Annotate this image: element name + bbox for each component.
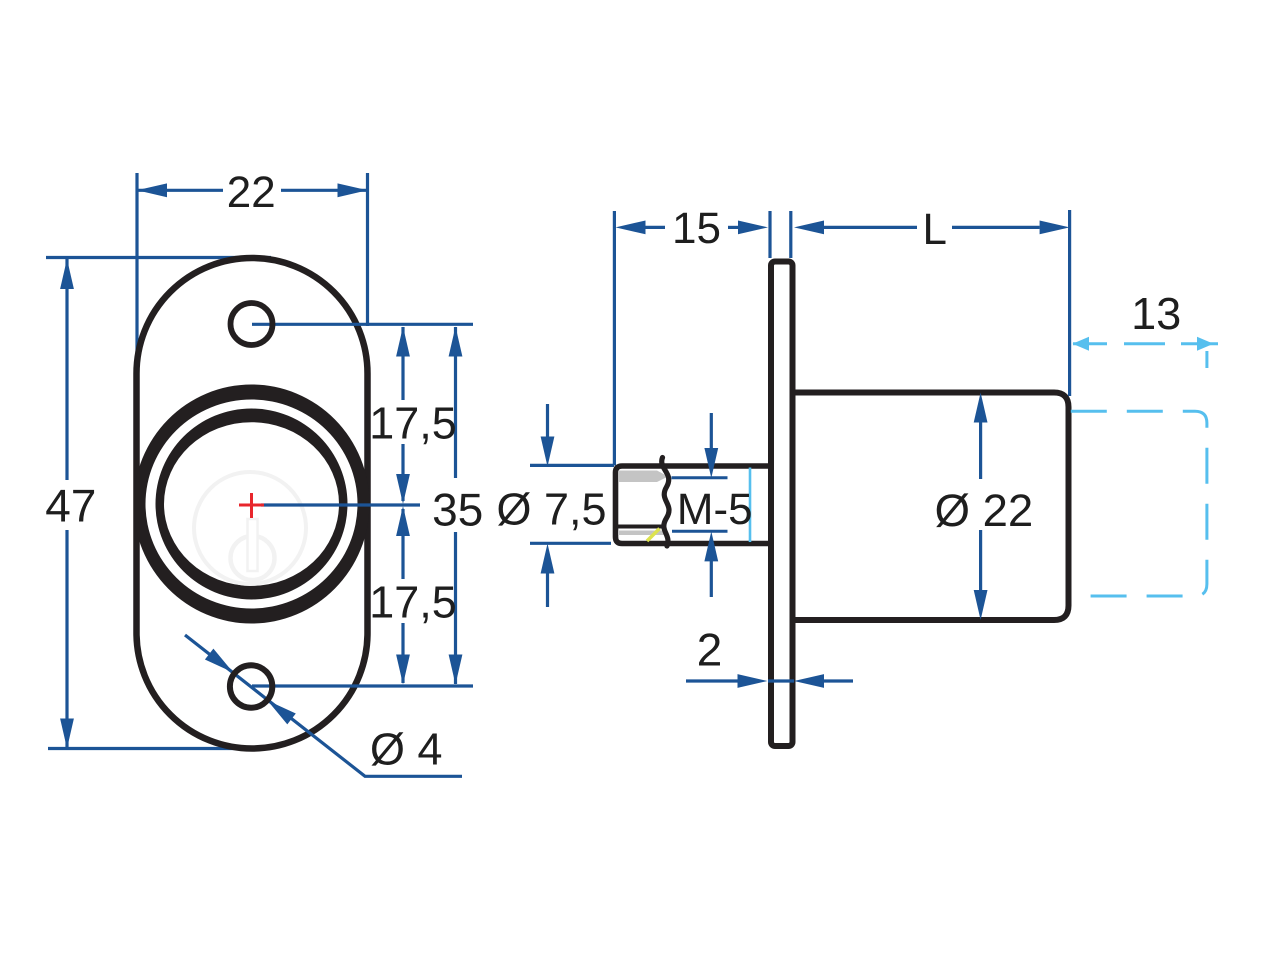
leader arrows <box>205 649 296 725</box>
label 35 <box>434 493 481 526</box>
threaded stud (side view) <box>616 466 771 544</box>
label 22 <box>229 176 274 207</box>
dimension 17,5 top arrows <box>396 327 410 505</box>
label diameter 22 <box>936 493 1031 527</box>
label 15 <box>675 213 719 244</box>
label 13 <box>1135 298 1180 330</box>
dimension 15 line <box>646 226 741 229</box>
dimension 22 arrows <box>137 183 368 197</box>
thread minor diameter line top <box>672 476 728 479</box>
dimension L extension line <box>1068 210 1071 396</box>
dimension 7,5 extension lines <box>530 465 614 543</box>
dimension 17,5 bottom line <box>401 509 404 683</box>
dimension 35 line <box>454 327 457 684</box>
lock body cylinder (side view) <box>794 393 1069 621</box>
oval flange plate (front view) <box>137 258 368 749</box>
dimension M-5 arrows <box>704 448 718 561</box>
thread end light blue line <box>749 468 752 543</box>
dimension 35 arrows <box>449 327 463 685</box>
top hole centre extension line <box>252 323 473 326</box>
yellow machining streak <box>647 529 660 542</box>
thread crest grey strip bottom <box>618 531 666 536</box>
thread break squiggle <box>662 458 669 547</box>
flange extension lines <box>770 211 791 258</box>
watermark logo circle <box>194 472 306 584</box>
bottom screw hole <box>230 665 272 707</box>
dimension L line <box>824 226 1040 229</box>
dimension 15 extension line <box>613 211 616 466</box>
dimension 13 arrows <box>1073 337 1214 351</box>
centre extension line <box>261 503 420 506</box>
label 17,5 bottom <box>373 587 455 624</box>
dimension 7,5 line <box>546 404 549 607</box>
watermark bar <box>248 519 258 571</box>
label 17,5 top <box>373 408 455 445</box>
label diameter 4 <box>371 732 441 765</box>
dimension 2 line <box>686 679 853 682</box>
label M-5 <box>680 494 750 525</box>
dimension 15 arrows <box>616 221 769 235</box>
leader line for hole diameter <box>185 635 462 776</box>
dimension L arrows <box>794 221 1070 235</box>
dimension 2 arrows <box>738 674 825 688</box>
dimension 22 extension lines <box>137 173 368 377</box>
dimension 22 diameter arrows <box>974 393 988 621</box>
dimension 17,5 top line <box>401 327 404 501</box>
dimension 17,5 bottom arrows <box>396 506 410 685</box>
mounting flange plate (side view) <box>771 262 793 747</box>
dimension 47 line <box>65 259 68 749</box>
dimension 13 dashed line <box>1073 342 1218 345</box>
dimension 22 diameter line <box>979 421 982 591</box>
cylinder plug inner ring <box>156 409 348 600</box>
dimension 47 extension lines <box>46 258 271 749</box>
thread minor diameter line bottom <box>672 530 728 533</box>
top screw hole <box>231 303 273 345</box>
dimension 7,5 arrows <box>541 437 555 574</box>
label 47 <box>46 490 94 522</box>
cylinder boss outer ring <box>134 385 370 624</box>
key extension dashed outline <box>1071 411 1207 596</box>
dimension 22 line <box>137 189 368 192</box>
thread crest grey strip top <box>619 471 668 483</box>
dimension 47 arrows <box>60 259 74 749</box>
thread root line bottom <box>618 525 665 529</box>
dimension M-5 line <box>710 413 713 597</box>
red centre cross <box>239 493 264 518</box>
bottom hole centre extension line <box>252 684 473 687</box>
label diameter 7,5 <box>498 492 605 530</box>
label 2 <box>699 633 720 665</box>
label L <box>926 214 945 244</box>
dashed extension stub <box>1205 351 1208 368</box>
